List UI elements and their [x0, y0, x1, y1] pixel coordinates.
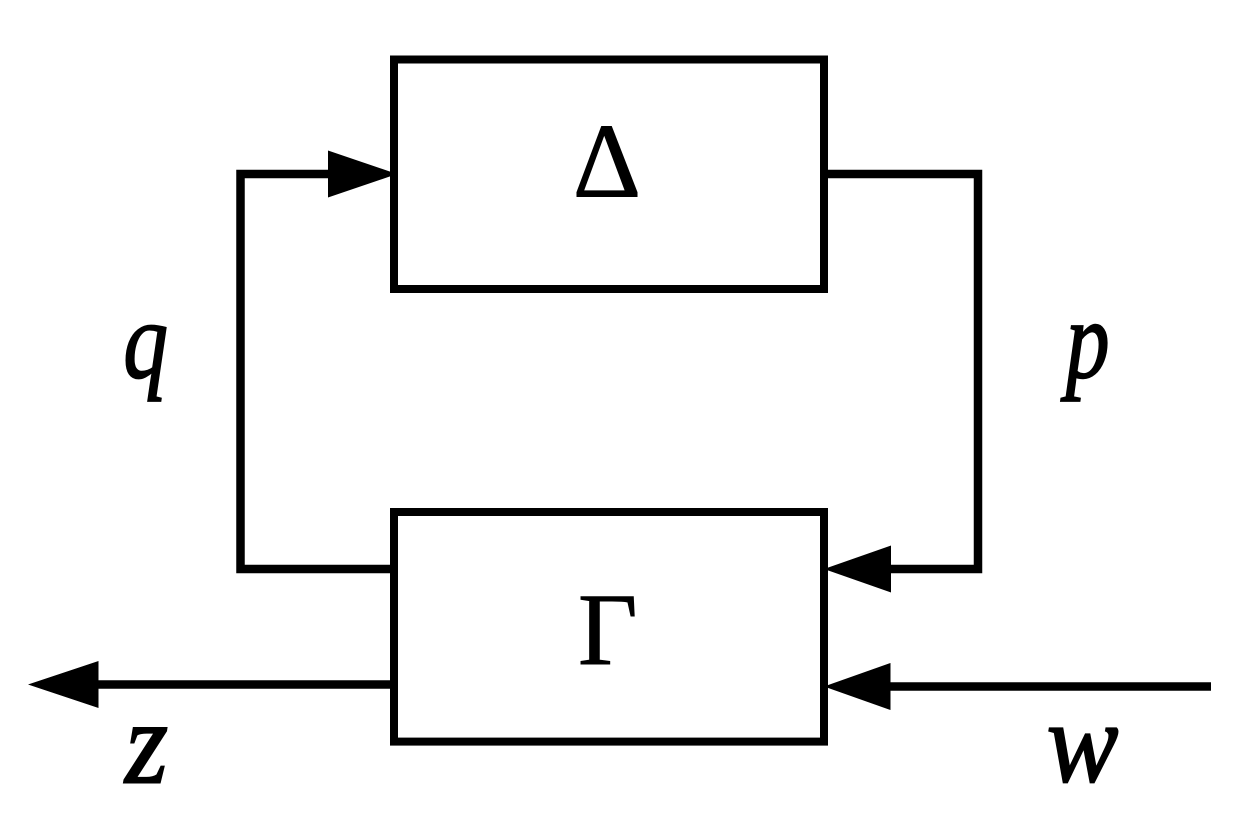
label q [123, 280, 168, 402]
label w [1047, 680, 1119, 807]
label z [123, 677, 168, 809]
svg-text:p: p [1061, 278, 1110, 402]
block Delta (uncertainty block) [394, 60, 824, 290]
arrowhead into Gamma (w) [824, 663, 891, 710]
svg-text:Δ: Δ [573, 103, 641, 220]
svg-text:w: w [1047, 680, 1119, 807]
arrowhead into Gamma (p) [824, 546, 891, 593]
wire q feedback (left loop: from Gamma left input up and into Delta) [241, 174, 393, 569]
block Gamma (plant block) [394, 512, 824, 742]
wire z output [96, 680, 392, 689]
wire w input [890, 682, 1211, 691]
svg-text:z: z [123, 677, 168, 809]
label p [1061, 278, 1110, 402]
svg-text:q: q [123, 280, 168, 402]
svg-text:Γ: Γ [578, 573, 638, 687]
arrowhead z (output, pointing left) [28, 661, 99, 708]
arrowhead into Delta [328, 151, 397, 198]
wire p feedback (right loop: from Delta output down into Gamma) [824, 174, 978, 569]
